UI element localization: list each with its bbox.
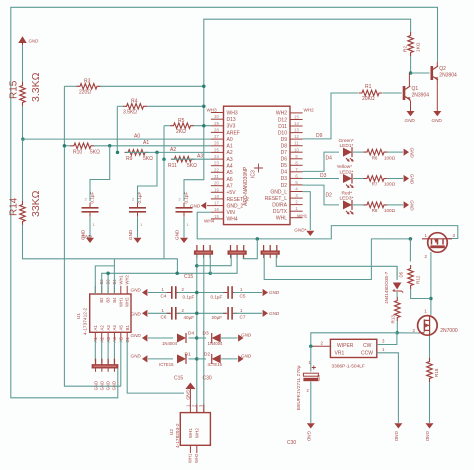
- svg-text:D11: D11: [278, 124, 287, 130]
- wire Q1 collector: [408, 73, 410, 86]
- svg-text:A1: A1: [227, 144, 233, 150]
- svg-text:A6: A6: [227, 177, 233, 183]
- diode D2 ICTE15: [204, 351, 223, 367]
- ground LED2: [404, 174, 415, 185]
- wire VR1 pin1: [377, 353, 399, 423]
- svg-text:R5: R5: [178, 118, 185, 124]
- svg-text:GND: GND: [410, 174, 415, 185]
- svg-text:0.1µF: 0.1µF: [211, 294, 223, 299]
- wire C6 left: [148, 312, 170, 314]
- wire net D3: [303, 178, 339, 180]
- junction leg3 273: [209, 272, 213, 276]
- svg-text:A5: A5: [227, 170, 233, 176]
- junction B4 273: [106, 272, 110, 276]
- svg-text:3.3KΩ: 3.3KΩ: [30, 72, 42, 102]
- svg-text:Q2: Q2: [439, 66, 446, 72]
- svg-text:C6: C6: [161, 314, 167, 319]
- label C2 value: [137, 191, 142, 203]
- label R18: [434, 368, 439, 377]
- label net A2: [170, 147, 176, 153]
- svg-text:2N7000: 2N7000: [440, 328, 458, 334]
- label gnd C1 rot: [81, 229, 86, 240]
- diode D4 1N4004: [162, 331, 194, 347]
- label R9: [126, 156, 153, 162]
- svg-text:U2: U2: [169, 429, 175, 435]
- svg-text:220Ω: 220Ω: [79, 90, 91, 96]
- wire U1 pin A3 down: [107, 340, 109, 362]
- junction R10 left: [63, 144, 67, 148]
- svg-text:GND: GND: [131, 287, 142, 292]
- wire node to D3: [197, 337, 206, 339]
- svg-text:R6: R6: [372, 155, 378, 160]
- svg-text:GND: GND: [94, 381, 99, 390]
- svg-text:D2: D2: [281, 183, 288, 189]
- svg-text:A0: A0: [227, 137, 233, 143]
- svg-text:AREF: AREF: [227, 130, 240, 136]
- svg-text:40µF: 40µF: [184, 315, 195, 320]
- label C7: [212, 308, 246, 320]
- svg-text:ICTE15: ICTE15: [208, 362, 223, 367]
- wire U1 pin WH1 to rail: [113, 259, 115, 294]
- label gnd C3 rot: [175, 229, 180, 240]
- label net D4: [326, 156, 333, 162]
- svg-text:1N4004: 1N4004: [162, 341, 178, 346]
- wire trimmer rail to C8 corner: [310, 333, 312, 347]
- svg-text:100Ω: 100Ω: [384, 155, 396, 160]
- wire R10 left stub: [64, 145, 71, 147]
- label R13: [391, 315, 396, 324]
- label C6: [161, 308, 195, 320]
- svg-text:GND: GND: [106, 381, 111, 390]
- svg-text:20KΩ: 20KΩ: [362, 96, 375, 102]
- junction gate node: [429, 297, 433, 301]
- junction pmos drain rail: [409, 237, 413, 241]
- ground GND_L: [306, 231, 314, 236]
- resistor R9: [125, 150, 149, 156]
- wire node to Q2 base: [411, 72, 430, 74]
- wire R14 bottom to rail: [23, 225, 211, 274]
- svg-text:GND: GND: [410, 200, 415, 211]
- svg-text:GND: GND: [432, 118, 443, 123]
- ground C7: [263, 310, 280, 317]
- diode D5 zener 1N4148: [393, 271, 404, 292]
- wire pmos gate down: [430, 252, 432, 315]
- pins IC3 left side with numbers: [204, 107, 249, 223]
- label GND_L: [294, 228, 306, 233]
- svg-text:2KΩ: 2KΩ: [176, 129, 186, 135]
- pins IC3 right side with numbers: [265, 107, 314, 221]
- label C2 pins: [132, 197, 143, 228]
- wire R5 right to 3V3: [194, 125, 211, 127]
- wire Q2 collector: [436, 62, 438, 66]
- svg-text:WH4: WH4: [227, 217, 238, 223]
- wire LED1 to R6: [353, 151, 364, 153]
- wire rail to bar2 leg3: [243, 239, 257, 259]
- resistor R5: [170, 118, 194, 135]
- wire VIN net: [197, 212, 458, 239]
- ground D1 row: [131, 354, 148, 363]
- svg-text:ICTE15: ICTE15: [159, 362, 174, 367]
- svg-text:D9: D9: [281, 137, 288, 143]
- svg-text:C15: C15: [184, 274, 193, 280]
- wire C4-C5 mid: [178, 292, 227, 294]
- connector U1 ground bar: [92, 359, 118, 372]
- svg-text:0.1µF: 0.1µF: [183, 294, 195, 299]
- ground C4: [131, 287, 148, 296]
- svg-text:A3: A3: [197, 154, 203, 160]
- svg-text:WH2: WH2: [304, 107, 315, 112]
- svg-text:GND*: GND*: [294, 228, 306, 233]
- svg-text:GND: GND: [81, 229, 86, 240]
- wire D3 right: [221, 337, 238, 339]
- svg-text:D4: D4: [326, 156, 333, 162]
- svg-text:LED1*: LED1*: [340, 143, 354, 149]
- svg-text:24: 24: [214, 154, 219, 159]
- svg-text:Yellow*: Yellow*: [337, 164, 353, 170]
- wire C2 to ground: [137, 217, 139, 238]
- wire 2N7000 drain down: [429, 334, 431, 360]
- wire 2N7000 source left: [311, 332, 420, 334]
- capacitor C6: [167, 307, 181, 320]
- wire main vertical rail x=203.8: [184, 86, 204, 201]
- diode D1 ICTE15: [159, 351, 191, 367]
- label net D3: [320, 173, 327, 179]
- svg-text:D7: D7: [281, 150, 288, 156]
- svg-text:27: 27: [214, 134, 219, 139]
- svg-text:GND: GND: [405, 118, 416, 123]
- wire Q2 emitter to gnd: [436, 80, 438, 111]
- label VR1 pin3: [382, 339, 385, 344]
- wire R2 bottom: [410, 56, 412, 73]
- junction R11 left: [162, 157, 166, 161]
- label R10: [73, 150, 100, 156]
- svg-text:R1: R1: [365, 84, 372, 90]
- wire A0 node to R14: [22, 139, 24, 201]
- svg-text:3386P-1-504LF: 3386P-1-504LF: [332, 364, 365, 370]
- wire C6-C7 mid: [178, 312, 227, 314]
- ground C3: [180, 238, 188, 243]
- wire D1 left: [148, 358, 173, 360]
- svg-text:R10: R10: [73, 150, 82, 156]
- junction VIN rail bar2: [256, 237, 260, 241]
- label gnd C2 rot: [128, 229, 133, 240]
- ground C2: [134, 238, 142, 243]
- svg-text:GND: GND: [190, 204, 201, 209]
- wire D1 to node: [189, 358, 197, 360]
- svg-text:1KΩ: 1KΩ: [416, 42, 422, 52]
- svg-text:C7: C7: [240, 314, 246, 319]
- svg-text:28: 28: [214, 127, 219, 132]
- svg-text:14: 14: [294, 121, 299, 126]
- svg-text:D10: D10: [278, 130, 287, 136]
- svg-text:WH2: WH2: [125, 275, 130, 285]
- wire R15 to A0 node: [22, 106, 24, 140]
- potentiometer VR1 3386P-1-504LF: [330, 339, 376, 369]
- svg-text:Q1: Q1: [412, 86, 419, 92]
- wire net D4: [303, 152, 339, 171]
- wire R8 to gnd: [387, 204, 403, 206]
- svg-text:D3: D3: [320, 173, 327, 179]
- svg-text:GND_L: GND_L: [270, 189, 287, 195]
- svg-text:D13: D13: [227, 117, 236, 123]
- svg-text:GND: GND: [175, 229, 180, 240]
- svg-text:GND: GND: [269, 311, 280, 316]
- wire LED2 to R7: [353, 178, 364, 180]
- label R8: [372, 208, 396, 213]
- resistor R15: [20, 82, 26, 106]
- svg-text:R9: R9: [126, 156, 133, 162]
- svg-text:0.1µF: 0.1µF: [90, 191, 95, 203]
- svg-text:GND: GND: [269, 290, 280, 295]
- svg-text:B4: B4: [112, 297, 117, 303]
- resistor R10: [70, 143, 94, 149]
- wire net A1: [94, 145, 211, 147]
- ground Q2: [432, 111, 443, 123]
- labels U2 pin numbers: [185, 404, 203, 407]
- svg-text:IC3: IC3: [251, 170, 257, 178]
- svg-text:17: 17: [214, 201, 219, 206]
- ground C1: [82, 234, 95, 243]
- op-amp U? main IC IC3 ARD-NANO30NP box: [224, 106, 291, 224]
- wire U2 bottom stub2: [196, 445, 198, 453]
- wire GND_L net: [303, 192, 311, 230]
- svg-text:3V3: 3V3: [227, 124, 236, 130]
- transistor Q3 2N7000: [413, 309, 458, 336]
- ground LED3: [404, 200, 415, 211]
- svg-text:Red*: Red*: [342, 191, 353, 197]
- svg-text:D6: D6: [281, 157, 288, 163]
- svg-text:WH1: WH1: [188, 453, 193, 463]
- wire D2 right: [221, 358, 238, 360]
- svg-text:WIPER: WIPER: [337, 343, 354, 349]
- capacitor C4: [167, 286, 181, 299]
- svg-text:D2: D2: [204, 351, 210, 357]
- capacitor C7: [223, 307, 237, 320]
- ground U2 pin1: [185, 383, 194, 400]
- resistor R13: [395, 297, 401, 321]
- svg-text:100Ω: 100Ω: [384, 182, 396, 187]
- svg-text:A2: A2: [100, 325, 105, 331]
- wire LED3 to R8: [353, 204, 364, 206]
- svg-text:GND: GND: [29, 39, 40, 44]
- wire bar1 leg1 down: [196, 255, 198, 413]
- label R6: [372, 155, 396, 160]
- label R12: [416, 275, 421, 284]
- svg-text:20µF: 20µF: [212, 315, 223, 320]
- svg-text:D1: D1: [185, 351, 191, 357]
- wire U1 pin WH2 down: [127, 340, 184, 393]
- svg-text:D2: D2: [326, 193, 333, 199]
- connector JP2 3-pin bar: [228, 245, 247, 258]
- svg-text:23: 23: [214, 161, 219, 166]
- resistor R7: [364, 176, 388, 182]
- svg-text:GND: GND: [112, 381, 117, 390]
- svg-text:B3: B3: [106, 297, 111, 303]
- wire C1 to ground: [89, 217, 91, 238]
- resistor R2: [408, 32, 414, 56]
- svg-text:WH1: WH1: [118, 297, 123, 307]
- resistor R14: [20, 201, 26, 225]
- wire U1 pin B3 to 273 line: [102, 273, 178, 294]
- wire node to D2: [197, 358, 206, 360]
- ground Q1: [405, 111, 416, 123]
- label net A3: [197, 154, 203, 160]
- junction trimmer rail R13: [395, 331, 399, 335]
- svg-text:18: 18: [214, 194, 219, 199]
- svg-text:WH3: WH3: [207, 107, 218, 112]
- svg-text:22: 22: [214, 167, 219, 172]
- resistor R12: [408, 265, 414, 289]
- svg-text:A4: A4: [227, 164, 233, 170]
- label 1N4148DO35: [384, 271, 389, 304]
- capacitor C8 electrolytic: [303, 360, 321, 393]
- svg-text:WH4: WH4: [204, 218, 215, 223]
- label U1 gnd bar: [94, 381, 117, 390]
- svg-text:R2: R2: [403, 46, 409, 52]
- svg-text:B2: B2: [99, 297, 104, 303]
- svg-text:D9: D9: [316, 133, 323, 139]
- svg-text:11: 11: [294, 141, 299, 146]
- wire second top rail: [204, 19, 411, 86]
- svg-text:1N4148DO35-7: 1N4148DO35-7: [384, 271, 389, 304]
- svg-text:C30: C30: [203, 376, 212, 382]
- wire net 265 to bar2: [197, 255, 231, 266]
- svg-text:A0: A0: [134, 134, 140, 140]
- label net D9: [316, 133, 323, 139]
- resistor R3: [77, 79, 101, 96]
- label R15: [9, 72, 43, 102]
- wire D4 left: [148, 337, 173, 339]
- svg-text:WH1: WH1: [188, 428, 193, 438]
- wire U1 pin A4 down: [113, 340, 115, 362]
- wire drain teal: [429, 336, 431, 362]
- wire Q1 emitter to gnd: [409, 100, 410, 111]
- label R2: [403, 42, 422, 52]
- svg-text:A1: A1: [143, 140, 149, 146]
- LED LED2 yellow: [337, 164, 354, 188]
- svg-text:GND: GND: [131, 333, 142, 338]
- svg-text:R15: R15: [9, 80, 20, 99]
- svg-text:33KΩ: 33KΩ: [30, 190, 42, 217]
- svg-text:D3: D3: [281, 176, 288, 182]
- svg-text:A4: A4: [112, 325, 117, 331]
- resistor R1: [359, 84, 383, 102]
- wire R3 left: [64, 85, 77, 87]
- svg-text:R13: R13: [391, 315, 396, 324]
- wire D9 net: [303, 93, 358, 139]
- label C15 bottom: [174, 376, 183, 382]
- svg-text:4-1737412-2: 4-1737412-2: [83, 307, 89, 335]
- svg-text:WHL: WHL: [276, 216, 287, 222]
- wire R12 bottom: [411, 289, 431, 299]
- svg-text:5KΩ: 5KΩ: [143, 156, 153, 162]
- ground C5: [263, 289, 280, 296]
- svg-text:WH1: WH1: [118, 275, 123, 285]
- connector JP3 3-pin bar: [261, 245, 280, 258]
- label net A0: [134, 134, 140, 140]
- svg-text:2N3904: 2N3904: [412, 93, 430, 99]
- svg-text:16: 16: [214, 207, 219, 212]
- ground R18: [425, 423, 434, 442]
- wire net A0: [23, 138, 211, 140]
- resistor R11: [171, 156, 195, 162]
- resistor-network U1 4-1737412-2 box: [76, 294, 131, 335]
- svg-text:15: 15: [294, 115, 299, 120]
- wire U1 pin WH1 down: [120, 340, 122, 386]
- svg-text:U1: U1: [76, 313, 82, 319]
- svg-text:C30: C30: [287, 440, 296, 446]
- svg-text:LED2*: LED2*: [340, 169, 354, 175]
- svg-text:D1/TX: D1/TX: [273, 209, 288, 215]
- svg-text:WH2: WH2: [194, 453, 199, 463]
- svg-text:25: 25: [214, 147, 219, 152]
- svg-text:WH3: WH3: [227, 110, 238, 116]
- label C3 value: [184, 191, 189, 203]
- svg-text:GND_2: GND_2: [227, 203, 244, 209]
- svg-text:GND: GND: [241, 333, 252, 338]
- svg-text:10: 10: [294, 147, 299, 152]
- label C4: [161, 287, 195, 299]
- capacitor C2: [129, 203, 146, 217]
- junction R9 left: [116, 151, 120, 155]
- transistor Q2 2N3904: [431, 66, 458, 80]
- wire +border top/left/right net: [11, 7, 438, 398]
- resistor R4: [123, 99, 147, 116]
- svg-text:GND: GND: [394, 431, 399, 442]
- wire U1 pin B4 stub up: [107, 273, 109, 294]
- svg-text:0.1µF: 0.1µF: [184, 191, 189, 203]
- svg-text:GND: GND: [185, 390, 190, 401]
- wire net D2: [303, 185, 339, 205]
- svg-text:A7: A7: [227, 183, 233, 189]
- wire R6 to gnd: [387, 151, 403, 153]
- svg-text:C15: C15: [174, 376, 183, 382]
- svg-text:A5: A5: [119, 325, 124, 331]
- label C1 value: [90, 191, 95, 203]
- wire C8 top: [310, 346, 312, 371]
- wire U2 bottom stub1: [189, 445, 191, 453]
- svg-text:A3: A3: [106, 325, 111, 331]
- junction A0 divider: [21, 137, 25, 141]
- label C1 pins: [85, 197, 96, 228]
- svg-text:D4: D4: [188, 331, 194, 337]
- label R11: [168, 163, 197, 169]
- svg-text:D5: D5: [398, 271, 403, 277]
- wire bar3 leg1 down: [264, 239, 410, 280]
- junction C15 cap row1: [195, 291, 199, 295]
- wire U1 pin A2 down: [101, 340, 103, 362]
- svg-text:R11: R11: [168, 163, 177, 169]
- junction diode row1: [195, 336, 199, 340]
- svg-text:4-178293-2: 4-178293-2: [175, 423, 181, 448]
- wire U1 pins to gnd bar: [94, 340, 96, 362]
- wire net A3: [172, 158, 211, 160]
- wire R1 to Q1 base: [383, 92, 402, 94]
- svg-text:GND: GND: [241, 353, 252, 358]
- junction C30 cap row2: [195, 312, 199, 316]
- svg-text:WH2: WH2: [276, 111, 287, 117]
- wire C5 right: [234, 292, 262, 294]
- svg-text:C8: C8: [316, 375, 321, 381]
- ground LED1: [404, 148, 415, 159]
- svg-text:GND: GND: [425, 431, 430, 442]
- wire C7 right: [234, 312, 262, 314]
- wire bar3 leg3 to D5: [276, 255, 397, 278]
- wire D4 to node: [189, 337, 197, 339]
- wire D5 chain top: [396, 266, 398, 280]
- svg-text:2N3904: 2N3904: [439, 73, 457, 79]
- svg-text:D4: D4: [281, 170, 288, 176]
